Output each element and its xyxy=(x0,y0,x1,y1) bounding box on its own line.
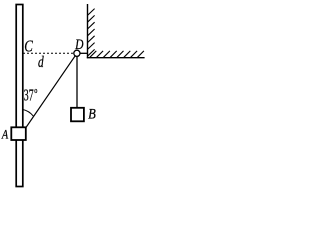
svg-text:C: C xyxy=(24,37,33,56)
pulley support line D-wall xyxy=(77,52,88,54)
wall horizontal edge xyxy=(87,57,145,59)
svg-text:D: D xyxy=(74,37,83,53)
rod/string A-D xyxy=(25,53,77,129)
svg-text:d: d xyxy=(38,54,44,71)
dashed line C-D xyxy=(23,52,77,54)
svg-text:37: 37 xyxy=(24,86,34,105)
angle arc at A xyxy=(22,109,33,116)
string D-B xyxy=(76,53,78,108)
block B xyxy=(71,108,84,122)
collar A (square on pole) xyxy=(11,127,25,140)
wall vertical edge xyxy=(87,4,89,58)
svg-text:B: B xyxy=(88,107,96,123)
wall hatching vertical xyxy=(88,9,95,57)
svg-text:A: A xyxy=(1,127,8,142)
pulley D xyxy=(74,50,80,56)
wall hatching horizontal xyxy=(90,51,144,58)
pole (vertical rod) xyxy=(16,5,23,187)
